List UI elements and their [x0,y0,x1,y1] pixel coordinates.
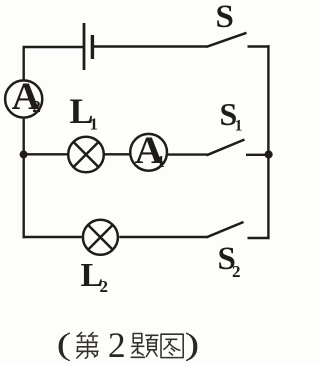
wire middle branch left [24,153,68,155]
ammeter A2 circle [5,80,42,117]
wire top-left horizontal [24,46,84,48]
wire bottom branch left [23,236,82,238]
caption character DI (第) [77,333,98,359]
svg-text:S: S [216,0,234,35]
svg-text:2: 2 [100,277,109,296]
wire switch S1 contact stub [246,154,268,156]
caption character TU (图) [161,334,183,357]
wire switch S contact stub [248,45,270,47]
node junction dot right [265,150,273,158]
battery B1 short plate (-) [91,35,94,59]
wire left vertical upper [23,46,25,80]
svg-text:1: 1 [235,118,243,135]
wire switch S2 contact stub [248,237,270,239]
svg-text:1: 1 [90,115,99,134]
battery B1 long plate (+) [83,23,86,70]
lamp L2 circle [83,220,118,255]
switch S2 blade [207,222,244,237]
svg-text:): ) [185,327,200,362]
svg-text:2: 2 [108,325,126,365]
switch S1 blade [207,140,245,156]
lamp L1 circle [68,137,104,173]
node junction dot left [20,150,28,158]
wire bottom branch right [119,236,207,238]
svg-text:2: 2 [32,97,41,116]
svg-text:1: 1 [157,152,166,171]
switch S blade [207,33,247,47]
wire middle branch right [168,153,208,155]
svg-text:2: 2 [232,262,241,281]
wire right vertical [267,45,269,238]
ammeter A1 circle [130,134,167,171]
wire middle branch between L1 and A1 [105,153,130,155]
svg-text:(: ( [57,327,72,362]
wire left vertical lower [23,119,25,239]
caption character TI (题) [131,334,158,358]
lamp L2 cross [88,225,113,250]
wire top-right horizontal [92,45,207,47]
lamp L1 cross [73,142,98,167]
